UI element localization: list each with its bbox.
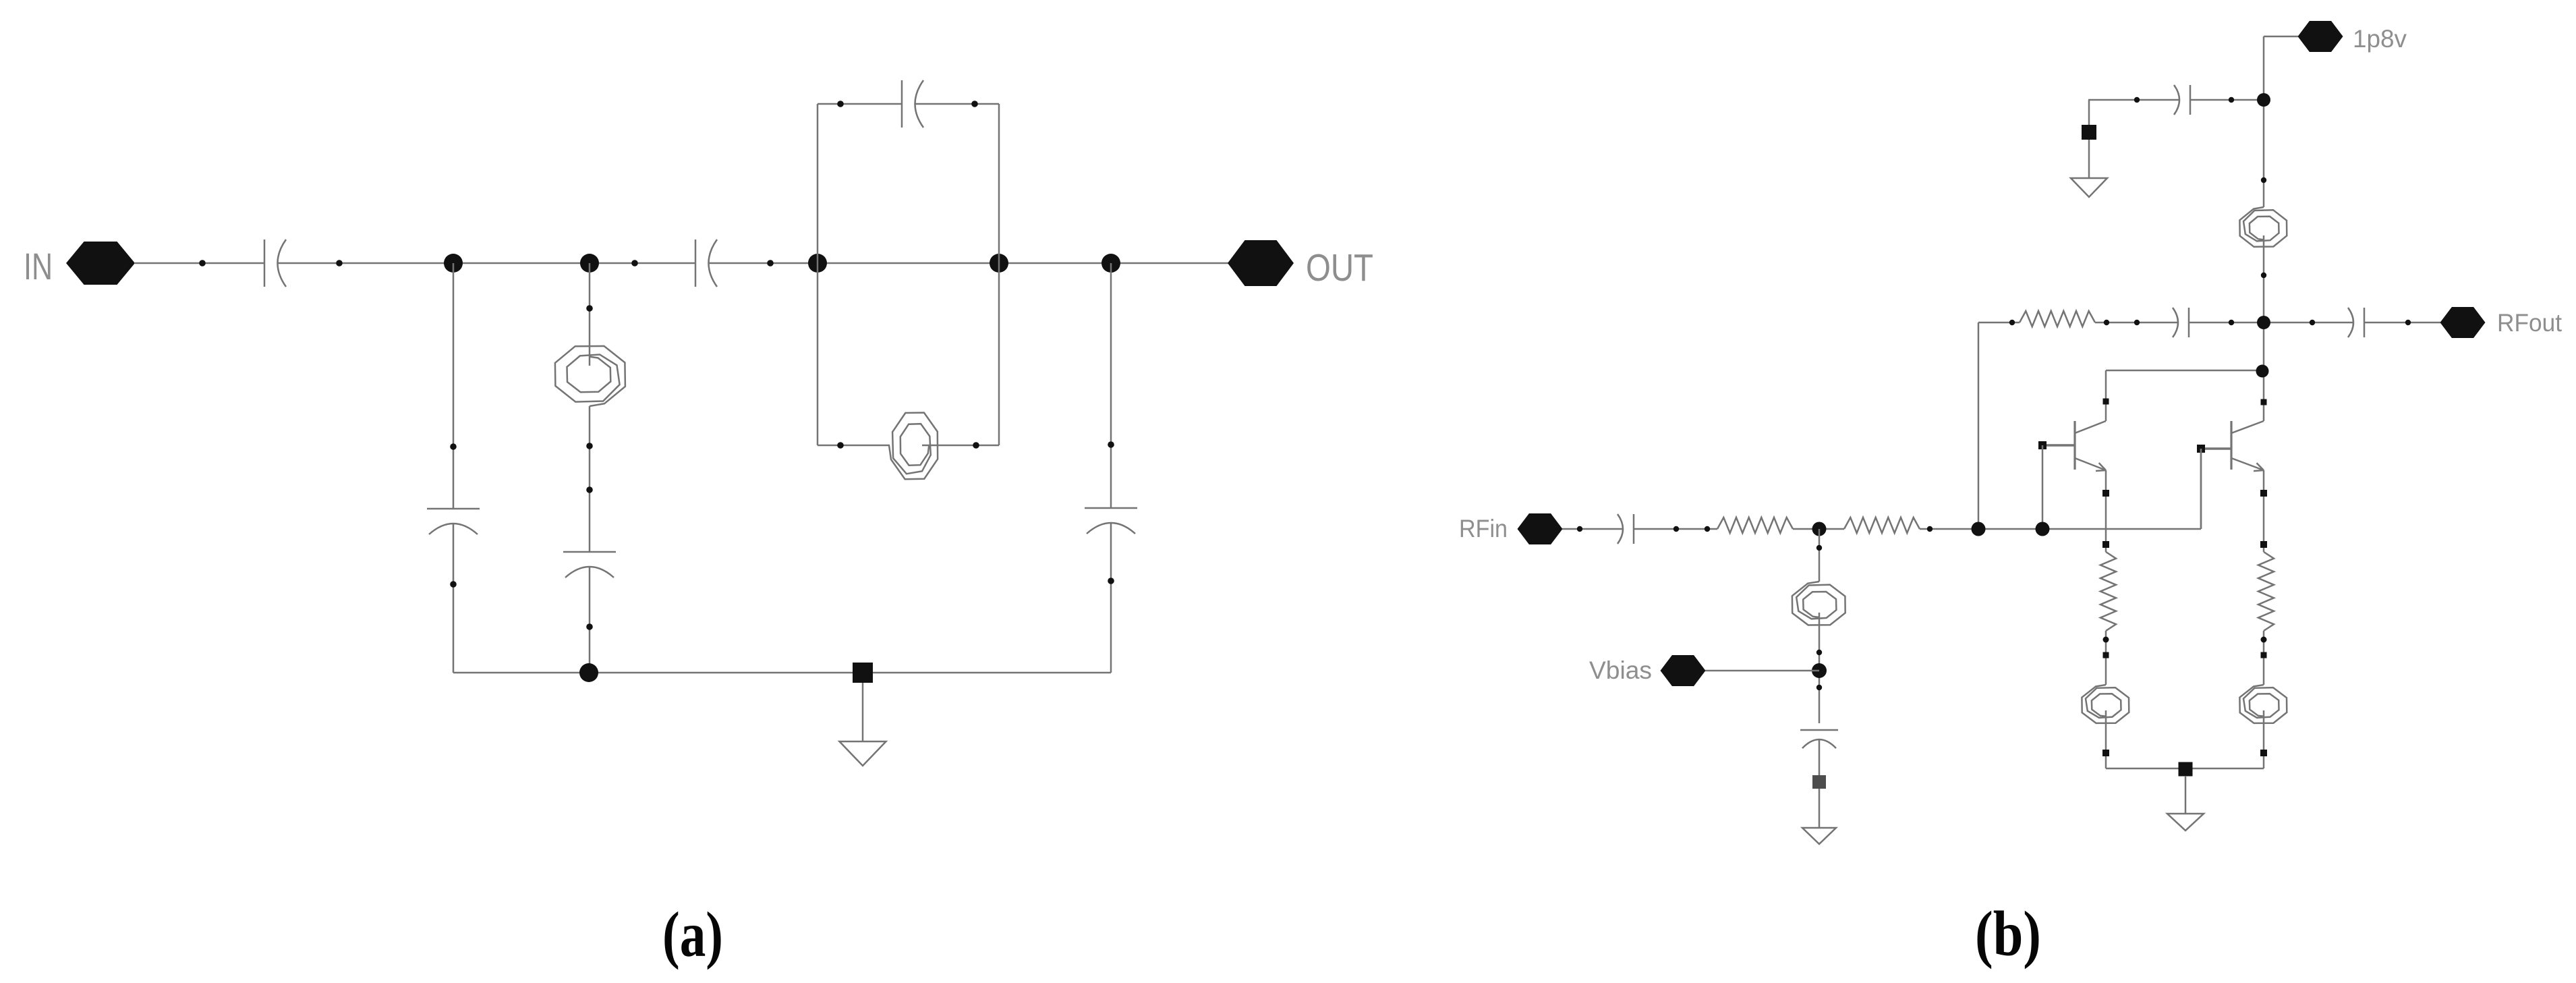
svg-text:IN: IN: [24, 245, 53, 287]
svg-text:OUT: OUT: [1306, 246, 1373, 289]
svg-text:(a): (a): [662, 899, 723, 970]
svg-text:RFout: RFout: [2497, 309, 2563, 337]
svg-text:Vbias: Vbias: [1589, 656, 1652, 684]
svg-text:RFin: RFin: [1459, 515, 1508, 542]
svg-text:(b): (b): [1975, 898, 2041, 970]
svg-text:1p8v: 1p8v: [2353, 25, 2407, 53]
